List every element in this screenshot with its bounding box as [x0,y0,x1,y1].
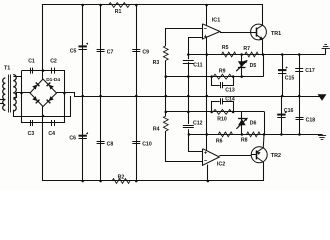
C7/C8 rail [100,5,102,181]
label IC1 [212,18,220,24]
wire TR2 collector [263,161,265,164]
svg-text:C4: C4 [48,131,55,137]
resistor R6 [218,132,232,137]
wire middle 0V rail [57,93,322,97]
C18 rail [299,96,301,134]
svg-text:R4: R4 [153,126,160,132]
svg-text:R9: R9 [219,69,226,75]
label C14 [225,97,235,103]
capacitor C7 [97,50,105,52]
wire IC2 V- pin [207,165,209,181]
label C12 [193,120,203,126]
svg-text:IC1: IC1 [212,18,220,24]
R3/R4 rail with IC1- / IC2- loops [166,29,203,162]
earth symbol at -V output [318,134,326,139]
junction dots bottom rail [81,180,209,183]
svg-text:R6: R6 [216,138,223,144]
capacitor C6 [79,132,89,138]
svg-text:T1: T1 [4,66,10,72]
wire IC1 output to TR1 base [220,32,252,34]
wire secondary centre tap to left vertex [13,93,30,98]
label C11 [193,63,202,69]
capacitor C5 [79,43,89,50]
label R8 [241,138,248,144]
wire bridge left vertex stub [22,92,31,94]
op-amp IC1 [202,24,220,39]
capacitor C2 [52,68,55,74]
wire TR1 emitter/feedback vertical x=263 [263,55,265,77]
svg-text:R1: R1 [115,9,122,15]
svg-text:C12: C12 [193,120,203,126]
svg-text:R7: R7 [243,46,250,52]
C11/C12 rail with IC1+ / IC2+ loops [189,38,203,152]
label T1 [4,66,10,72]
resistor R5 [222,52,236,57]
junction dots upper feedback row [165,75,244,78]
wire negative output (R6/R8 row) y=134.4 [189,134,322,136]
svg-text:R10: R10 [217,117,227,123]
svg-text:C8: C8 [107,141,114,147]
diode D3 (bottom-left arm) [32,96,39,103]
svg-text:C14: C14 [225,97,235,103]
svg-text:C13: C13 [225,87,235,93]
capacitor C15 [278,67,288,74]
wire bridge DC- vertical [42,107,44,124]
capacitor C12 [183,126,194,128]
capacitor C17 [295,69,303,72]
svg-text:IC2: IC2 [217,162,225,168]
bridge rectifier D1-D4 diamond [30,79,57,107]
label C4 [48,131,55,137]
label D5 [250,63,257,69]
label R4 [153,126,160,132]
svg-text:C5: C5 [70,49,77,55]
junction dots lower feedback row [165,111,235,114]
svg-text:C10: C10 [142,141,152,147]
wire upper feedback y=76.6 [166,76,264,78]
label R7 [243,46,250,52]
wire IC1 V+ pin [206,5,208,26]
transformer T1 [0,75,16,113]
diode D1 (top-left arm) [32,82,39,89]
wire secondary bottom to bridge AC2 [14,96,71,117]
C9/C10 rail [136,5,138,181]
resistor R8 [247,132,261,137]
wire positive output (R5/R7 row) y=54.5 [189,54,326,56]
svg-text:R8: R8 [241,138,248,144]
capacitor C18 [296,118,304,120]
capacitor C4 [52,120,55,126]
label C10 [142,141,152,147]
label C5 [70,49,77,55]
capacitor C11 [183,61,194,64]
capacitor C9 [132,50,140,52]
resistor R9 with C13 in parallel [212,74,234,88]
wire TR2 emitter [262,134,265,147]
capacitor C10 [132,142,140,144]
resistor R1 [109,3,130,8]
capacitor C8 [97,142,105,144]
svg-text:R3: R3 [153,60,160,66]
svg-text:D6: D6 [250,120,257,126]
label C7 [107,50,114,56]
label C17 [305,68,315,74]
diode D5 (adjustable) [236,55,247,77]
label C16 [284,108,294,114]
earth symbol at +V output [322,45,330,55]
junction dots middle rail [81,95,300,98]
C16 rail [281,96,283,134]
label TR1 [271,31,281,37]
C5/C6 rail [82,5,84,181]
svg-text:C6: C6 [69,136,76,142]
svg-text:R2: R2 [118,175,125,181]
wire IC2 output to TR2 base [219,155,251,157]
svg-text:TR1: TR1 [271,31,281,37]
label IC2 [217,162,225,168]
svg-text:C3: C3 [28,131,35,137]
junction dots +V output row [187,53,301,56]
C15 rail [282,55,284,97]
op-amp IC2 [203,149,220,166]
wire lower feedback y=111.9 [166,111,265,113]
wire IC1 V- pin / supply rail down to IC2 [206,37,208,150]
label R9 [219,69,226,75]
label C9 [142,50,149,56]
svg-text:C17: C17 [305,68,315,74]
wire bottom negative rail [43,123,264,181]
label R5 [222,45,229,51]
svg-text:C7: C7 [107,50,114,56]
svg-text:C11: C11 [193,63,202,69]
label C3 [28,131,35,137]
ground arrow at 0V rail [318,94,327,101]
svg-text:C15: C15 [285,75,295,81]
label R2 [118,175,125,181]
label C2 [50,58,57,64]
wire secondary top to bridge box [13,76,21,78]
svg-text:C2: C2 [50,58,57,64]
label C6 [69,136,76,142]
label C1 [28,58,35,64]
junction dots bridge [20,69,66,117]
capacitor C16 [277,111,287,118]
label C18 [306,118,316,124]
label TR2 [271,153,281,159]
wire bridge DC+ vertical [42,71,44,79]
wire TR1 emitter [262,39,264,54]
wire top positive rail [43,5,263,71]
label R6 [216,138,223,144]
diode D4 (bottom-right arm) [47,96,54,103]
label D1-D4 [46,77,60,83]
svg-text:C9: C9 [142,50,149,56]
capacitor C1 [31,68,33,74]
svg-text:C1: C1 [28,58,35,64]
svg-text:D1-D4: D1-D4 [46,77,60,83]
transistor TR2 [251,147,267,163]
resistor R4 [163,116,168,131]
wire TR1 collector [262,24,264,27]
junction dots -V output row [188,133,301,136]
resistor R2 [112,179,130,184]
wire TR2 emitter/feedback vertical x=264 [264,112,266,134]
C17 rail [299,55,301,97]
label R1 [115,9,122,15]
resistor R7 [245,52,259,57]
diode D6 (adjustable) [236,112,247,134]
svg-text:R5: R5 [222,45,229,51]
svg-text:TR2: TR2 [271,153,281,159]
label C15 [285,75,295,81]
transistor TR1 [251,24,267,40]
resistor R3 [163,46,168,61]
junction dots top rail [81,4,208,7]
label R10 [217,117,227,123]
capacitor C3 [31,120,33,126]
svg-text:C16: C16 [284,108,294,114]
bridge suppression box (C1-C4 frame) [22,71,65,124]
svg-text:C18: C18 [306,118,316,124]
label D6 [250,120,257,126]
label C13 [225,87,235,93]
label R3 [153,60,160,66]
diode D2 (top-right arm) [47,82,54,89]
label C8 [107,141,114,147]
svg-text:D5: D5 [250,63,257,69]
resistor R10 with C14 in parallel [212,98,234,114]
